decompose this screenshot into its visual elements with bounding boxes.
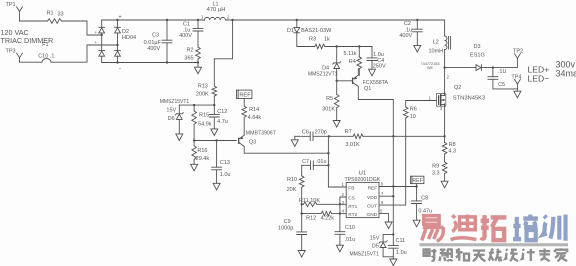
svg-text:Q3: Q3 <box>249 139 256 145</box>
op-amp/controller U1 TPS92001DGK <box>346 182 379 217</box>
svg-text:D3: D3 <box>473 44 480 50</box>
svg-text:R10: R10 <box>287 177 297 183</box>
svg-text:VDD: VDD <box>367 195 378 201</box>
svg-text:MMSZ15VT1: MMSZ15VT1 <box>160 99 190 105</box>
wire F1 to bridge AC2 <box>51 45 118 62</box>
svg-text:LED−: LED− <box>528 73 550 83</box>
svg-text:MMBT3906T: MMBT3906T <box>246 131 277 137</box>
wire L2 to D3/Q2 <box>443 66 445 68</box>
svg-text:Q1: Q1 <box>364 86 371 92</box>
svg-text:1000p: 1000p <box>278 226 293 232</box>
resistor R8 4.3 <box>442 143 447 155</box>
diode D3 ES1G <box>476 65 481 71</box>
capacitor C13 1.0u <box>216 141 218 168</box>
resistor R16 29.4k <box>193 141 195 146</box>
wire divider to Q3 base <box>194 140 236 142</box>
svg-text:+: + <box>95 30 98 35</box>
resistor R12 4.22k <box>302 213 321 215</box>
svg-text:R11 10K: R11 10K <box>299 198 320 204</box>
svg-text:15V: 15V <box>370 235 380 241</box>
svg-text:4.64k: 4.64k <box>248 115 262 121</box>
svg-text:250V: 250V <box>373 63 386 69</box>
svg-text:R6: R6 <box>410 106 417 112</box>
watermark underline bar <box>420 243 569 246</box>
svg-text:REF: REF <box>368 186 378 192</box>
svg-text:D5: D5 <box>372 244 379 250</box>
wire R3 to C4 <box>325 46 372 48</box>
svg-text:C11: C11 <box>396 238 406 244</box>
wire pin2 CS to C10 <box>340 197 346 232</box>
net flag REF (at U1 pin8) <box>410 176 424 183</box>
svg-text:33: 33 <box>57 11 63 17</box>
resistor R13 200K <box>212 86 217 96</box>
svg-text:C3: C3 <box>152 33 159 39</box>
test point TP2 <box>515 54 521 59</box>
svg-text:R2: R2 <box>186 48 193 54</box>
svg-text:C5: C5 <box>498 82 505 88</box>
zener D6 MMSZ15VT1 15V <box>178 105 180 114</box>
svg-text:5.11k: 5.11k <box>343 51 356 57</box>
svg-text:1k: 1k <box>324 37 330 43</box>
svg-text:1.0u: 1.0u <box>396 250 407 256</box>
transistor Q3 MMBT3906T (PNP) <box>238 138 240 143</box>
svg-text:C10: C10 <box>345 225 355 231</box>
svg-text:R12: R12 <box>306 215 316 221</box>
svg-text:C2: C2 <box>404 21 411 27</box>
svg-text:C8: C8 <box>421 195 428 201</box>
svg-text:34ma: 34ma <box>556 68 576 78</box>
capacitor C6 270p <box>295 135 310 137</box>
svg-text:FCX558TA: FCX558TA <box>363 80 389 86</box>
svg-text:1.0u: 1.0u <box>220 172 231 178</box>
svg-text:400V: 400V <box>179 33 192 39</box>
watermark text 射频和天线设计专家 <box>424 249 437 261</box>
svg-text:R9: R9 <box>432 164 439 170</box>
transistor Q1 FCX558TA (PNP) <box>352 78 354 83</box>
capacitor C5 .1U <box>492 68 494 77</box>
wire sense/VDD rail <box>329 135 353 137</box>
capacitor C1 .1u 400V <box>197 19 199 21</box>
svg-text:C7: C7 <box>302 159 309 165</box>
wire bottom rail (rectified -) <box>102 62 198 64</box>
wire pin5 GND <box>379 214 389 222</box>
svg-text:400V: 400V <box>147 46 160 52</box>
zener D5 MMSZ15VT1 15V <box>392 233 394 235</box>
wire pin7 VDD column <box>379 136 393 196</box>
inductor L2 10mH <box>444 20 446 36</box>
svg-text:ES1G: ES1G <box>470 52 485 58</box>
capacitor C11 1.0u <box>388 246 398 249</box>
svg-text:U1: U1 <box>359 171 367 177</box>
resistor R1 33 <box>48 19 62 24</box>
svg-text:TP3: TP3 <box>5 49 15 55</box>
transistor Q2 STN3N45K3 (N-MOSFET) <box>444 68 446 96</box>
svg-text:54.9k: 54.9k <box>198 121 212 127</box>
svg-text:4.3: 4.3 <box>448 149 456 155</box>
svg-text:STN3N45K3: STN3N45K3 <box>453 96 486 102</box>
svg-text:15V: 15V <box>166 107 176 113</box>
svg-text:365: 365 <box>184 56 193 62</box>
wire D3 to TP2 <box>481 58 517 67</box>
svg-text:HD04: HD04 <box>122 35 136 41</box>
svg-text:R3: R3 <box>309 37 316 43</box>
svg-text:-: - <box>119 65 121 72</box>
svg-text:MMSZ12VT1: MMSZ12VT1 <box>308 72 338 78</box>
svg-text:TP1: TP1 <box>5 2 15 8</box>
resistor R7 3.01K <box>353 134 363 139</box>
svg-text:BAS21-03W: BAS21-03W <box>301 28 332 34</box>
svg-text:Q2: Q2 <box>454 85 461 91</box>
svg-text:.01u: .01u <box>316 159 327 165</box>
capacitor C2 .1u 400V <box>416 19 418 21</box>
svg-text:D4: D4 <box>322 66 329 72</box>
resistor R6 10 <box>403 107 408 118</box>
resistor R15 54.9k <box>193 105 195 111</box>
svg-text:29.4k: 29.4k <box>196 156 210 162</box>
capacitor C8 0.47u <box>416 184 418 201</box>
svg-text:CS: CS <box>348 195 355 201</box>
capacitor C10 .01u <box>335 232 345 235</box>
wire top rail (rectified +) <box>102 19 205 21</box>
ground at TP4/C5 <box>516 89 518 91</box>
svg-text:10: 10 <box>410 114 416 120</box>
svg-text:D1: D1 <box>287 28 294 34</box>
test point TP4 <box>516 84 518 89</box>
svg-text:301K: 301K <box>322 107 335 113</box>
capacitor C7 .01u <box>302 164 311 166</box>
svg-text:+: + <box>95 40 98 45</box>
svg-text:C9: C9 <box>284 219 291 225</box>
svg-text:TP2: TP2 <box>513 48 523 54</box>
svg-text:4.22k: 4.22k <box>321 215 335 221</box>
svg-text:FB: FB <box>348 186 354 192</box>
inductor L1 470uH <box>205 17 226 20</box>
wire Q2 gate <box>406 101 437 108</box>
svg-text:200K: 200K <box>196 92 209 98</box>
svg-text:F1: F1 <box>42 42 48 48</box>
svg-text:270p: 270p <box>315 129 327 135</box>
resistor R11 10K <box>302 203 304 205</box>
svg-text:C6: C6 <box>302 129 309 135</box>
test point TP3 <box>17 53 23 58</box>
wire TP1 to R1 <box>20 20 48 22</box>
svg-text:R4: R4 <box>349 59 356 65</box>
svg-text:3.01K: 3.01K <box>345 142 360 148</box>
svg-text:TPS92001DGK: TPS92001DGK <box>345 177 381 183</box>
diode D1 BAS21-03W <box>296 19 298 21</box>
svg-text:R1: R1 <box>46 11 53 17</box>
svg-text:WE: WE <box>427 66 434 70</box>
svg-text:400V: 400V <box>399 33 412 39</box>
bridge rectifier D2 HD04 <box>101 20 103 27</box>
svg-text:C13: C13 <box>220 160 230 166</box>
svg-text:R8: R8 <box>449 142 456 148</box>
svg-text:3.3: 3.3 <box>432 170 440 176</box>
svg-text:GND: GND <box>367 212 378 218</box>
svg-text:D6: D6 <box>168 116 175 122</box>
zener D4 MMSZ12VT1 <box>336 47 338 63</box>
ground at R2/bottom rail <box>197 61 199 63</box>
svg-text:TP4: TP4 <box>511 74 521 80</box>
resistor R9 3.3 <box>442 162 447 174</box>
resistor R10 20K <box>301 165 303 176</box>
wire R1 to bridge AC1 <box>62 21 102 35</box>
resistor R3 1k <box>315 44 325 49</box>
svg-text:R5: R5 <box>326 96 333 102</box>
resistor R14 4.64k <box>242 106 247 117</box>
svg-text:REF: REF <box>239 93 251 99</box>
svg-text:R15: R15 <box>199 112 209 118</box>
resistor R2 365 <box>196 47 201 59</box>
wire pin8 REF <box>379 186 417 188</box>
svg-text:.1U: .1U <box>498 69 507 75</box>
svg-text:10mH: 10mH <box>428 48 443 54</box>
node divider (D6/R15/C12/R13) <box>179 104 214 106</box>
watermark text 易迪拓培训 <box>422 216 444 242</box>
svg-text:20K: 20K <box>287 187 297 193</box>
test point TP1 <box>17 7 23 12</box>
resistor R5 301K <box>336 80 338 82</box>
svg-text:R14: R14 <box>249 107 259 113</box>
svg-text:C12: C12 <box>217 109 227 115</box>
wire rail branch to R13 <box>231 19 233 21</box>
capacitor C3 0.01uF 400V <box>166 19 168 21</box>
svg-text:0.47u: 0.47u <box>418 209 432 215</box>
svg-text:L2: L2 <box>433 39 439 45</box>
svg-text:RT2: RT2 <box>348 212 357 218</box>
capacitor C9 1000p <box>297 232 307 235</box>
svg-text:R16: R16 <box>197 148 207 154</box>
svg-text:RT1: RT1 <box>348 204 357 210</box>
wire FB node column <box>328 136 346 187</box>
svg-text:OUT: OUT <box>367 204 377 210</box>
capacitor C12 4.7u <box>213 105 215 114</box>
svg-text:R13: R13 <box>198 84 208 90</box>
svg-text:MMSZ15VT1: MMSZ15VT1 <box>349 251 379 257</box>
wire Q1 collector to VDD column <box>358 86 393 136</box>
resistor R4 5.11k <box>358 47 360 57</box>
svg-text:.01u: .01u <box>345 237 356 243</box>
net flag REF (to R14) <box>237 90 252 98</box>
svg-text:REF: REF <box>412 178 422 184</box>
svg-text:470 µH: 470 µH <box>207 7 226 13</box>
svg-text:4.7u: 4.7u <box>217 119 228 125</box>
svg-text:R7: R7 <box>345 129 352 135</box>
capacitor C4 1.0u 250V <box>371 47 373 58</box>
